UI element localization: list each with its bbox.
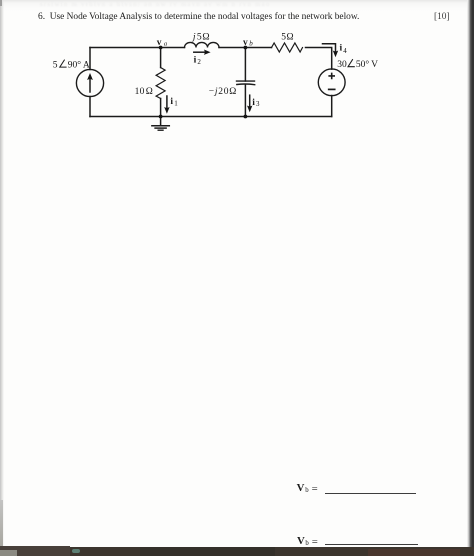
svg-text:4: 4 <box>343 47 347 55</box>
junction dot capacitor bottom <box>244 115 248 119</box>
faint ghost text bleed at top <box>40 1 460 8</box>
svg-text:b: b <box>249 40 253 48</box>
svg-text:90° A: 90° A <box>68 59 90 70</box>
svg-text:−j20Ω: −j20Ω <box>209 87 237 97</box>
resistor R1 10Ω vertical zigzag <box>156 68 165 99</box>
svg-text:2: 2 <box>197 58 201 66</box>
wire top segment node Vb to resistor 5Ω <box>245 47 271 49</box>
ground symbol <box>160 117 162 126</box>
right dark edge <box>467 0 474 556</box>
voltage source plus sign <box>329 73 334 78</box>
current arrow i3 <box>249 95 251 106</box>
current source I1 arrow <box>89 78 91 92</box>
capacitor C1 -j20Ω bottom plate <box>237 83 255 86</box>
node Va junction dot <box>159 46 163 50</box>
svg-text:i: i <box>194 54 197 65</box>
wire left vertical top stub <box>89 48 91 70</box>
wire left vertical bottom stub <box>89 97 91 117</box>
wire bottom segment <box>90 116 332 118</box>
resistor R2 5Ω horizontal zigzag <box>272 43 303 52</box>
inductor L1 j5Ω three humps <box>185 42 220 47</box>
junction dot resistor bottom on ground wire <box>159 115 163 119</box>
svg-text:5Ω: 5Ω <box>281 33 294 43</box>
svg-text:i: i <box>252 97 255 108</box>
wire 10Ω resistor top stub from node Va <box>160 48 162 68</box>
svg-text:v: v <box>157 38 162 48</box>
svg-text:10 Ω: 10 Ω <box>135 87 154 97</box>
title line <box>38 12 359 22</box>
wire resistor 5Ω to top-right corner and down to source <box>306 48 332 70</box>
wire 10Ω resistor bottom stub <box>160 99 162 117</box>
svg-text:v: v <box>243 38 248 48</box>
svg-text:a: a <box>164 41 168 48</box>
svg-text:5: 5 <box>53 60 58 70</box>
wire top segment from source to inductor through node Va <box>90 47 185 49</box>
svg-text:i: i <box>170 96 173 107</box>
bottom dark desk band <box>0 547 474 556</box>
current source I1 5∠90°A circle <box>76 69 103 96</box>
current arrow i1 <box>166 96 168 107</box>
wire top segment inductor to node Vb <box>219 47 245 49</box>
node Vb junction dot <box>244 46 248 50</box>
marks [10] <box>434 12 450 22</box>
svg-text:j: j <box>191 32 196 43</box>
svg-text:30: 30 <box>337 60 347 70</box>
svg-text:1: 1 <box>174 99 178 107</box>
voltage source minus sign <box>329 88 335 90</box>
svg-text:5Ω: 5Ω <box>197 32 210 43</box>
svg-text:50° V: 50° V <box>356 59 378 70</box>
wire right vertical bottom stub <box>331 96 333 117</box>
voltage source V1 30∠50°V circle <box>318 69 345 96</box>
wire capacitor top stub from node Vb <box>244 48 246 82</box>
top edge shading <box>0 0 474 12</box>
current arrow i2 <box>194 51 206 53</box>
svg-text:i: i <box>340 42 343 53</box>
current arrow i4 <box>323 44 336 52</box>
left page edge <box>0 0 4 556</box>
capacitor C1 -j20Ω top plate <box>237 80 255 82</box>
svg-text:3: 3 <box>256 100 260 108</box>
wire capacitor bottom stub <box>244 84 246 116</box>
